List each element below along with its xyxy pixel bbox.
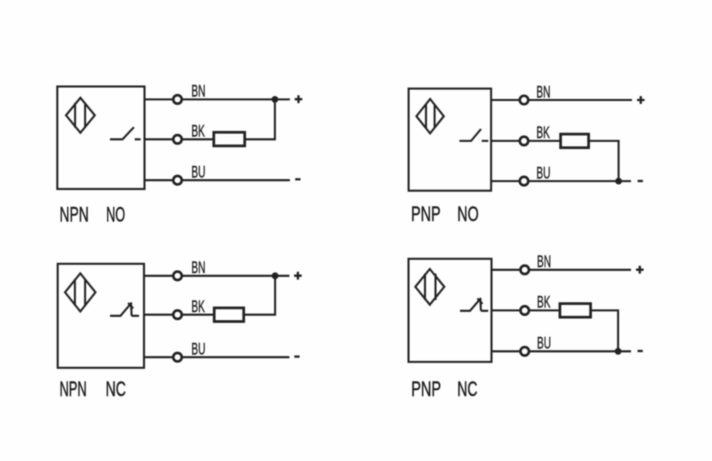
wire BN stub U3: [144, 275, 173, 277]
wire BN U2: [529, 99, 633, 101]
NO switch contact U2: [459, 129, 488, 141]
wire BU stub U4: [492, 350, 521, 352]
terminal circle BU U3: [173, 353, 182, 362]
wire BU U3: [182, 356, 289, 358]
svg-text:PNP: PNP: [411, 203, 441, 226]
terminal circle BN U3: [173, 272, 182, 281]
svg-text:BU: BU: [191, 340, 205, 358]
svg-text:NO: NO: [457, 203, 478, 226]
svg-text:BU: BU: [536, 164, 550, 182]
sensor box U2 (PNP NO): [409, 89, 492, 191]
plus terminal U2: [637, 96, 645, 104]
terminal circle BU U2: [520, 177, 529, 186]
plus terminal U1: [295, 95, 303, 103]
minus terminal U2: [638, 180, 643, 182]
wire BU stub U2: [491, 180, 519, 182]
terminal circle BK U3: [173, 310, 182, 319]
minus terminal U1: [295, 178, 300, 180]
logo diamond U3: [65, 273, 96, 311]
wire BK U2: [529, 140, 561, 142]
svg-text:BN: BN: [536, 83, 550, 101]
wire BU U2: [529, 180, 632, 182]
sensor box U1 (NPN NO): [57, 87, 144, 190]
wire BN U3: [182, 275, 289, 277]
svg-text:NC: NC: [106, 378, 126, 401]
terminal circle BK U2: [520, 137, 529, 146]
terminal circle BN U4: [520, 266, 529, 275]
wire resistor to + U3: [244, 276, 275, 315]
terminal circle BN U1: [173, 95, 182, 104]
NC switch contact U4: [460, 298, 488, 311]
terminal circle BU U4: [520, 347, 529, 356]
load resistor R4: [560, 304, 591, 318]
wire BK stub U2: [491, 140, 519, 142]
wire BK stub U1: [145, 138, 174, 140]
load resistor R2: [561, 134, 589, 148]
wire BU U4: [529, 350, 631, 352]
NC switch contact U3: [110, 303, 139, 316]
svg-text:PNP: PNP: [411, 378, 441, 401]
wire BK stub U4: [492, 309, 521, 311]
load resistor R3: [214, 308, 244, 322]
sensor box U3 (NPN NC): [58, 264, 144, 368]
junction dot U4: [615, 348, 622, 355]
logo diamond U4: [415, 269, 444, 305]
svg-text:NPN: NPN: [60, 378, 87, 401]
svg-text:BU: BU: [191, 164, 205, 182]
svg-text:NO: NO: [106, 204, 125, 227]
terminal circle BU U1: [173, 176, 182, 185]
plus terminal U3: [294, 272, 302, 280]
wire resistor to - U2: [589, 141, 619, 181]
wire BU U1: [182, 179, 290, 181]
terminal circle BK U4: [520, 306, 529, 315]
svg-text:BU: BU: [537, 335, 551, 353]
wire BN U1: [182, 98, 290, 100]
logo diamond U1: [66, 98, 95, 133]
logo diamond U2: [416, 99, 443, 133]
wire BK U4: [529, 309, 560, 311]
wire BU stub U3: [144, 356, 173, 358]
NO switch contact U1: [110, 127, 141, 139]
minus terminal U4: [638, 350, 643, 352]
wire BK U3: [182, 314, 214, 316]
junction dot U3: [272, 272, 279, 279]
plus terminal U4: [636, 266, 644, 274]
wire resistor to + U1: [245, 99, 275, 139]
svg-text:NC: NC: [457, 378, 477, 401]
terminal circle BK U1: [173, 135, 182, 144]
wire BN stub U1: [145, 98, 174, 100]
wire BN stub U2: [491, 99, 519, 101]
terminal circle BN U2: [520, 96, 529, 105]
svg-text:BK: BK: [191, 298, 205, 316]
wire BK U1: [182, 138, 214, 140]
wire BK stub U3: [144, 314, 173, 316]
minus terminal U3: [294, 355, 299, 357]
svg-text:BK: BK: [537, 294, 551, 312]
junction dot U2: [615, 178, 622, 185]
svg-text:NPN: NPN: [60, 204, 89, 227]
sensor box U4 (PNP NC): [409, 259, 492, 362]
junction dot U1: [272, 96, 279, 103]
svg-text:BK: BK: [191, 123, 205, 141]
wire BN stub U4: [492, 269, 521, 271]
wire BU stub U1: [145, 179, 174, 181]
svg-text:BN: BN: [537, 253, 551, 271]
svg-text:BK: BK: [536, 124, 550, 142]
load resistor R1: [214, 132, 245, 146]
wire BN U4: [529, 269, 631, 271]
svg-text:BN: BN: [191, 83, 205, 101]
svg-text:BN: BN: [191, 259, 205, 277]
wire resistor to - U4: [591, 310, 619, 351]
